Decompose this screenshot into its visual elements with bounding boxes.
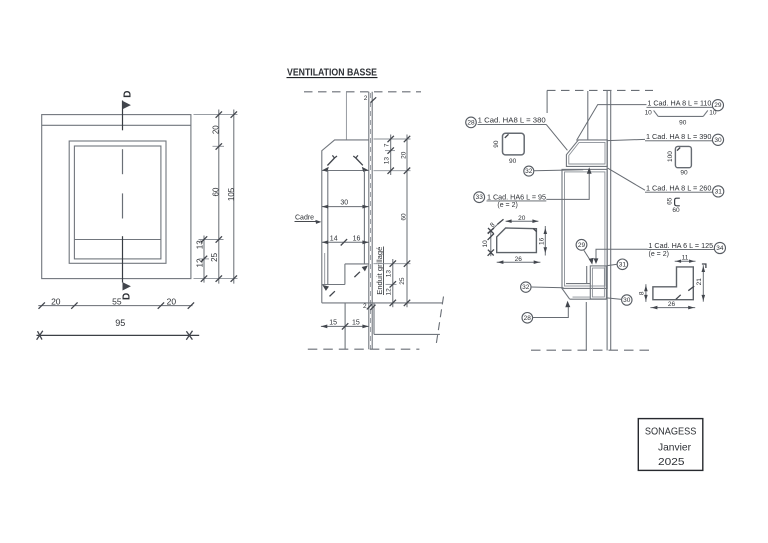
hatch tick notch (354, 272, 360, 277)
arrowhead step corner (322, 285, 329, 291)
wall left line (368, 92, 370, 349)
bottom piece inner edge (573, 296, 591, 298)
cadre top piece (322, 140, 369, 171)
section line D bottom (122, 236, 124, 282)
section flag bottom (123, 282, 131, 290)
bend diagram 34 L shape (653, 267, 693, 300)
tick (188, 302, 194, 308)
RIGHT-VIEW (466, 90, 726, 350)
small stirrup outer (590, 266, 606, 299)
dim 16 pentagon (544, 226, 546, 256)
X mark right (186, 331, 192, 340)
chain 20-60-25 (406, 135, 408, 308)
bottom dimension line 20-55-20 (38, 305, 192, 307)
below-frame vertical (344, 303, 346, 349)
svg-text:90: 90 (679, 119, 687, 126)
svg-text:60: 60 (401, 213, 408, 221)
svg-text:10: 10 (482, 240, 489, 248)
wall left line (606, 90, 608, 350)
svg-text:29: 29 (714, 102, 722, 109)
MIDDLE-VIEW (287, 68, 444, 350)
svg-text:(e = 2): (e = 2) (649, 251, 669, 258)
svg-text:14: 14 (330, 235, 338, 242)
leader 34 (596, 249, 648, 260)
svg-text:VENTILATION BASSE: VENTILATION BASSE (287, 68, 377, 79)
cadre left edge (321, 171, 323, 303)
bend diagram 31 C shape (675, 198, 680, 206)
svg-text:D: D (123, 90, 134, 97)
inner frame inner rectangle (74, 146, 160, 259)
leader 30 top (607, 139, 645, 140)
stirrup 28 bend diagram square (503, 133, 525, 155)
svg-text:8: 8 (639, 291, 646, 295)
circle 34 (714, 242, 725, 253)
svg-text:10: 10 (709, 109, 717, 116)
svg-text:12: 12 (196, 258, 205, 267)
wall right line (610, 90, 612, 350)
dim 26 (650, 307, 695, 309)
cadre bottom piece top edge (345, 263, 369, 265)
dim 26 pentagon (497, 261, 541, 263)
tall stirrup inner (565, 172, 605, 286)
svg-text:28: 28 (524, 315, 532, 322)
svg-text:21: 21 (696, 278, 703, 286)
dim 8 pentagon chamfer (491, 222, 501, 231)
svg-text:55: 55 (112, 296, 122, 306)
top band line (42, 124, 191, 126)
svg-text:20: 20 (167, 296, 177, 306)
chain 7-13 (390, 135, 392, 176)
svg-text:15: 15 (352, 319, 360, 326)
svg-text:16: 16 (538, 237, 545, 245)
svg-text:100: 100 (667, 151, 674, 162)
svg-text:31: 31 (619, 261, 627, 268)
svg-text:Enduit grillagé: Enduit grillagé (375, 247, 384, 295)
leader 32 top (534, 170, 583, 171)
dim 15-15 line (321, 325, 369, 327)
bottom piece bottom edge (570, 298, 607, 300)
svg-text:13: 13 (386, 270, 393, 278)
svg-text:60: 60 (212, 187, 221, 196)
chain 13-12 low (392, 259, 394, 307)
bottom dashed line (531, 349, 652, 351)
circle 29 top (712, 100, 723, 111)
svg-text:13: 13 (196, 240, 205, 249)
svg-text:20: 20 (212, 125, 221, 134)
svg-text:(e = 2): (e = 2) (497, 202, 517, 209)
leader 31 bottom (607, 264, 618, 265)
slab top line (322, 302, 443, 304)
circle 29 bottom (576, 239, 587, 250)
svg-text:30: 30 (623, 297, 631, 304)
extension line inner top (213, 145, 225, 147)
tick (158, 302, 164, 308)
cadre right inner line (363, 171, 365, 264)
svg-text:33: 33 (476, 194, 484, 201)
left vertical stub (546, 90, 548, 113)
wall right line (371, 92, 373, 349)
svg-text:D: D (122, 293, 133, 300)
svg-text:15: 15 (329, 319, 337, 326)
hatch tick lower-left (330, 291, 335, 296)
LEFT-VIEW (37, 90, 238, 339)
svg-text:26: 26 (668, 301, 676, 308)
svg-text:11: 11 (682, 255, 689, 262)
leader 31 top (607, 168, 645, 190)
svg-text:20: 20 (518, 215, 526, 222)
svg-text:2: 2 (363, 303, 367, 310)
svg-text:32: 32 (525, 168, 533, 175)
arrowhead notch corner (362, 266, 368, 272)
leader 30 bottom (607, 298, 622, 300)
tall stirrup outer (562, 169, 607, 288)
Cadre leader arrow (315, 220, 321, 224)
leader 29 bottom (584, 250, 591, 262)
svg-text:20: 20 (401, 151, 408, 159)
svg-text:65: 65 (666, 197, 673, 205)
bend diagram 30 square (675, 146, 691, 167)
hatch mark Y right (353, 155, 363, 165)
leader 28 bottom (533, 305, 569, 318)
cadre left inner lines (324, 253, 326, 285)
bend ticks (676, 295, 681, 300)
top stirrup outer (566, 140, 607, 167)
wall dashed centerline (370, 93, 372, 349)
stirrup 34 bar horizontal (566, 283, 590, 285)
circle 33 (474, 192, 485, 203)
svg-text:10: 10 (645, 109, 653, 116)
svg-text:31: 31 (715, 188, 723, 195)
circle 31 top (713, 186, 724, 197)
svg-text:105: 105 (227, 187, 236, 201)
slab left edge (373, 303, 375, 335)
svg-text:1 Cad. HA6 L = 95: 1 Cad. HA6 L = 95 (487, 194, 546, 201)
tick (71, 302, 77, 308)
bend diagram 33 pentagon (497, 228, 537, 253)
inner frame outer rectangle (69, 141, 166, 263)
svg-text:30: 30 (340, 200, 348, 207)
extension frame bottom (374, 170, 411, 172)
arrowhead bottom-left (322, 167, 329, 172)
top stirrup inner (569, 142, 605, 164)
svg-text:2025: 2025 (658, 456, 685, 468)
tick (39, 302, 45, 308)
svg-text:13: 13 (384, 157, 391, 165)
svg-text:7: 7 (384, 143, 391, 147)
dim 20 pentagon (506, 220, 539, 222)
svg-text:30: 30 (714, 137, 722, 144)
circle 32 bottom (521, 282, 531, 292)
leader 29 top (577, 105, 647, 141)
extension line bottom (194, 278, 238, 280)
hook mark (505, 134, 509, 138)
leader 33 (546, 171, 589, 200)
stirrup 34 leg vertical (586, 266, 588, 284)
title box (638, 419, 703, 471)
chain 13-12 (203, 236, 205, 283)
svg-text:60: 60 (672, 207, 680, 214)
svg-text:95: 95 (115, 318, 125, 328)
extension line top (194, 114, 238, 116)
svg-text:Cadre: Cadre (295, 215, 314, 222)
TITLE-BLOCK (638, 419, 703, 471)
svg-text:16: 16 (353, 235, 361, 242)
X mark left (37, 331, 43, 340)
dim 14-16 line (322, 241, 369, 243)
svg-text:32: 32 (522, 284, 530, 291)
svg-text:1 Cad. HA 8 L = 260: 1 Cad. HA 8 L = 260 (646, 185, 712, 192)
hook mark (677, 148, 680, 151)
dashed centerline (122, 149, 124, 174)
dim 21 (702, 265, 704, 302)
top dashed line (304, 91, 421, 93)
extension chamfer level (385, 150, 395, 152)
outer rectangle of vent elevation (42, 115, 191, 279)
leader 32 bottom (531, 286, 564, 289)
hook mark pentagon (533, 229, 536, 232)
small stirrup inner (592, 268, 604, 297)
top dashed line (547, 89, 653, 91)
chain 105 (233, 110, 235, 284)
extension line inner bottom (199, 258, 210, 260)
bottom dashed line (308, 348, 420, 350)
bottom band line of opening (74, 239, 160, 241)
dim 10 pentagon (490, 230, 492, 257)
svg-text:1 Cad. HA 8 L = 110: 1 Cad. HA 8 L = 110 (647, 100, 711, 107)
svg-text:34: 34 (716, 245, 724, 252)
circle 32 top (524, 166, 534, 176)
cadre top piece bottom edge (322, 170, 369, 172)
svg-text:90: 90 (509, 158, 517, 165)
bend diagram 29 (658, 115, 703, 117)
svg-text:28: 28 (467, 119, 475, 126)
centerline vertical (587, 91, 589, 140)
circle 28 bottom (522, 313, 533, 324)
circle 30 top (712, 134, 723, 145)
leader 28 top (546, 124, 567, 150)
svg-text:1 Cad. HA8 L = 380: 1 Cad. HA8 L = 380 (478, 118, 546, 125)
svg-text:12: 12 (386, 288, 393, 296)
cadre bottom piece step edge (322, 284, 345, 286)
circle 30 bottom (622, 295, 632, 305)
section flag top (123, 101, 131, 109)
dim 8 (645, 284, 647, 302)
extension step level (386, 283, 397, 285)
bottom piece chamfer (562, 288, 570, 299)
extension line band (199, 239, 224, 241)
hatch mark Y left (327, 155, 337, 165)
circle 31 bottom (617, 259, 628, 270)
hook mark L (702, 264, 706, 268)
cadre bottom piece notch vertical (344, 264, 346, 285)
overall line 95 (37, 334, 200, 336)
centerline stub top (345, 92, 347, 140)
arrowhead bottom-right (362, 167, 369, 172)
svg-text:25: 25 (210, 252, 219, 261)
svg-text:1 Cad. HA 8 L = 390: 1 Cad. HA 8 L = 390 (646, 134, 712, 141)
svg-text:26: 26 (515, 256, 523, 263)
svg-text:1 Cad. HA 6 L = 125: 1 Cad. HA 6 L = 125 (648, 243, 713, 250)
chain 20-60-25 (218, 110, 220, 284)
dim 30 line (322, 206, 369, 208)
dim 11 (675, 260, 696, 262)
svg-text:SONAGESS: SONAGESS (645, 425, 697, 437)
svg-text:20: 20 (51, 296, 61, 306)
svg-text:90: 90 (680, 169, 688, 176)
svg-text:29: 29 (578, 242, 586, 249)
title underline (287, 77, 378, 79)
svg-text:2: 2 (364, 95, 368, 102)
slab bottom line (374, 333, 440, 335)
section line D top (122, 101, 124, 131)
svg-text:90: 90 (493, 140, 500, 148)
svg-text:Janvier: Janvier (658, 441, 691, 453)
circle 28 top (466, 117, 477, 128)
extension piece top level (374, 263, 411, 265)
svg-text:25: 25 (399, 277, 406, 285)
below-frame vertical (585, 302, 587, 350)
slab break line (436, 297, 444, 347)
extension frame top (374, 138, 411, 140)
